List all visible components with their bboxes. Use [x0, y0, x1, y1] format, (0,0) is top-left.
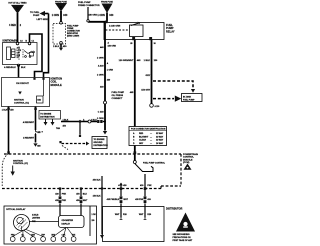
svg-text:CONTROL (IC): CONTROL (IC) — [14, 102, 29, 104]
svg-text:85: 85 — [130, 43, 132, 45]
svg-text:—: — — [150, 143, 152, 145]
svg-text:1 CM: 1 CM — [92, 214, 97, 216]
svg-text:PRIME CONNECTOR: PRIME CONNECTOR — [78, 5, 100, 7]
svg-text:TAN: TAN — [56, 127, 61, 130]
svg-text:TO FUEL: TO FUEL — [30, 12, 40, 14]
svg-text:ST: ST — [17, 57, 19, 59]
svg-text:1 ORN: 1 ORN — [97, 75, 104, 77]
svg-text:(PCM): (PCM) — [183, 162, 190, 164]
svg-text:—: — — [150, 133, 152, 135]
svg-text:RED: RED — [139, 133, 144, 135]
svg-text:A 440: A 440 — [98, 65, 105, 68]
svg-text:440 ORN: 440 ORN — [88, 14, 97, 17]
svg-text:(ENG COMP): (ENG COMP) — [67, 36, 80, 38]
svg-text:1 ORN: 1 ORN — [97, 14, 105, 17]
svg-text:OIL PRESS: OIL PRESS — [112, 95, 124, 97]
svg-text:LIGHTING: LIGHTING — [32, 218, 41, 220]
svg-text:C 440: C 440 — [98, 111, 105, 114]
svg-text:GRY: GRY — [146, 75, 151, 77]
svg-text:BLK/WHT: BLK/WHT — [139, 136, 149, 138]
svg-text:1 ORN: 1 ORN — [107, 70, 114, 72]
svg-text:340: 340 — [109, 14, 114, 17]
svg-text:435 PNK/BLK: 435 PNK/BLK — [107, 198, 120, 201]
svg-text:PNK: PNK — [62, 200, 67, 202]
svg-text:PNK: PNK — [147, 185, 152, 187]
svg-text:1 ORN: 1 ORN — [52, 14, 60, 17]
svg-text:A RED/BLK: A RED/BLK — [4, 66, 16, 69]
svg-text:PRECAUTIONS ON: PRECAUTIONS ON — [173, 236, 192, 239]
svg-text:OIL: OIL — [21, 234, 24, 236]
svg-text:CLEAR: CLEAR — [139, 139, 146, 142]
svg-text:FUEL PUMP: FUEL PUMP — [112, 92, 125, 94]
svg-text:450 BLK: 450 BLK — [93, 179, 102, 182]
svg-text:30: 30 — [154, 43, 156, 45]
svg-text:150: 150 — [92, 220, 95, 222]
svg-text:PCM CONNECTOR IDENTIFICATION: PCM CONNECTOR IDENTIFICATION — [131, 128, 166, 131]
svg-text:A 150: A 150 — [155, 105, 160, 108]
svg-text:IGNITION SW: IGNITION SW — [3, 39, 19, 42]
svg-text:OPTICAL DISPLAY: OPTICAL DISPLAY — [6, 208, 26, 211]
svg-text:1 BLK: 1 BLK — [63, 120, 69, 122]
svg-text:FROM FUSE: FROM FUSE — [55, 1, 67, 3]
svg-text:4 RED: 4 RED — [9, 24, 16, 27]
svg-text:BLK: BLK — [83, 193, 88, 195]
svg-text:940: 940 — [63, 14, 68, 17]
svg-text:FROM FUSE: FROM FUSE — [101, 2, 113, 4]
svg-text:SEE GROUNDING: SEE GROUNDING — [173, 234, 190, 236]
svg-text:POWERTRAIN: POWERTRAIN — [183, 153, 198, 156]
svg-text:1 BLK: 1 BLK — [91, 120, 97, 122]
svg-text:CONTROL (IC): CONTROL (IC) — [13, 163, 28, 165]
svg-text:IN-TANK: IN-TANK — [183, 95, 192, 98]
svg-text:1 BLK: 1 BLK — [53, 46, 60, 48]
svg-text:TO ENGINE: TO ENGINE — [94, 139, 106, 141]
svg-text:LEFT SIDE: LEFT SIDE — [37, 19, 49, 21]
svg-text:IGNITION: IGNITION — [13, 160, 23, 162]
svg-text:CONTROL: CONTROL — [183, 157, 194, 159]
svg-text:OFF: OFF — [17, 52, 20, 54]
svg-text:FUEL PUMP: FUEL PUMP — [78, 2, 91, 4]
svg-text:435 PNK: 435 PNK — [135, 198, 144, 201]
svg-text:32 WAY: 32 WAY — [156, 135, 164, 138]
svg-text:FUEL PUMP: FUEL PUMP — [183, 99, 195, 101]
svg-text:120 GRN/WHT: 120 GRN/WHT — [119, 60, 134, 62]
svg-text:32 WAY: 32 WAY — [156, 132, 164, 135]
svg-text:440 ORN: 440 ORN — [108, 44, 117, 47]
svg-text:A BULB: A BULB — [32, 213, 39, 216]
svg-text:150 BLK: 150 BLK — [93, 196, 102, 198]
svg-text:MODULE: MODULE — [183, 159, 193, 161]
svg-text:FIRST PAGE OF ART: FIRST PAGE OF ART — [173, 239, 194, 242]
svg-text:ODOMETER: ODOMETER — [62, 220, 74, 222]
svg-text:MODULE: MODULE — [51, 83, 63, 87]
svg-text:DISPLAY: DISPLAY — [62, 223, 71, 226]
svg-text:CM2: CM2 — [37, 99, 41, 101]
svg-text:TO ENGINE: TO ENGINE — [40, 113, 52, 115]
svg-text:RELAY: RELAY — [166, 29, 175, 33]
svg-text:WHT: WHT — [83, 200, 88, 202]
svg-text:—: — — [150, 140, 152, 142]
svg-text:GRY: GRY — [139, 143, 144, 145]
svg-text:CM CIRCUIT: CM CIRCUIT — [16, 83, 30, 85]
svg-text:—: — — [150, 136, 152, 138]
svg-text:BLK: BLK — [21, 67, 26, 69]
svg-text:1 ORN: 1 ORN — [97, 57, 104, 59]
svg-text:1 ORN: 1 ORN — [97, 118, 104, 120]
svg-text:WHT: WHT — [123, 199, 128, 201]
svg-text:1 BLK: 1 BLK — [144, 60, 151, 62]
svg-text:16 WAY: 16 WAY — [156, 142, 164, 145]
svg-text:DISTRIBUTION: DISTRIBUTION — [94, 145, 109, 147]
svg-text:PUMP: PUMP — [33, 15, 40, 17]
svg-text:WHT: WHT — [115, 214, 120, 216]
svg-text:INDICATOR: INDICATOR — [67, 32, 78, 35]
svg-text:1 BLK: 1 BLK — [2, 109, 8, 111]
svg-text:WHT: WHT — [139, 214, 144, 216]
svg-text:DISTRIBUTOR: DISTRIBUTOR — [166, 207, 183, 210]
svg-text:1 RED/WHT: 1 RED/WHT — [23, 138, 35, 140]
svg-text:HOT AT ALL TIMES: HOT AT ALL TIMES — [8, 1, 27, 4]
svg-text:A RED/WHT: A RED/WHT — [23, 121, 35, 124]
svg-text:PNK: PNK — [62, 193, 67, 195]
svg-text:A 440 ORN: A 440 ORN — [109, 24, 121, 27]
svg-text:150 GRY: 150 GRY — [141, 90, 150, 92]
svg-text:DISTRIBUTION: DISTRIBUTION — [40, 116, 55, 118]
svg-text:IGNITION: IGNITION — [14, 100, 24, 102]
svg-text:32 WAY: 32 WAY — [156, 139, 164, 142]
svg-text:GROUND: GROUND — [94, 142, 103, 144]
svg-text:FUEL PUMP CONTROL: FUEL PUMP CONTROL — [143, 163, 166, 165]
svg-text:CONNECT: CONNECT — [112, 98, 123, 100]
